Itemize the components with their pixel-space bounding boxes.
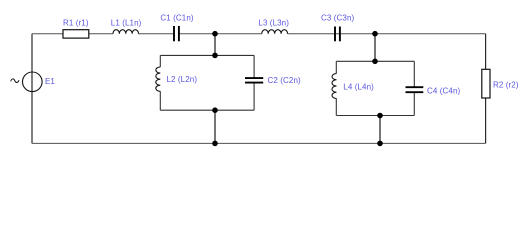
wire: R2 pin 2 down to bottom-right corner <box>485 98 487 143</box>
svg-text:R1 (r1): R1 (r1) <box>63 18 89 27</box>
svg-text:R2 (r2): R2 (r2) <box>493 81 519 90</box>
C1 left plate <box>173 26 175 41</box>
wire: L2C2 tank bottom rail <box>160 109 254 111</box>
wire: C2 branch lower lead <box>253 83 255 110</box>
capacitor C4 <box>406 87 424 92</box>
C3 right plate <box>339 27 341 42</box>
wire: junction drop x=215 L2C2 block bottom to bottom rail <box>214 110 216 143</box>
svg-text:L4 (L4n): L4 (L4n) <box>343 82 374 91</box>
C2 bottom plate <box>245 82 263 84</box>
E1 sine tilde <box>11 79 19 83</box>
wire: L2C2 tank outline <box>160 55 254 110</box>
node: junction dot bottom rail x=215 <box>212 141 218 147</box>
C4 bottom plate <box>406 91 424 93</box>
wire: C4 branch lower lead <box>413 93 415 116</box>
svg-text:C4 (C4n): C4 (C4n) <box>427 87 460 96</box>
svg-text:L3 (L3n): L3 (L3n) <box>258 18 289 27</box>
inductor L4 <box>332 74 337 99</box>
node: junction dot top rail x=215 <box>212 31 218 37</box>
wire: top-left corner to R1 left pin <box>32 33 63 35</box>
C4 top plate <box>406 86 424 88</box>
node: junction dot bottom rail x=380 <box>377 141 383 147</box>
node: junction dot L4C4 top <box>372 59 378 65</box>
C1 right plate <box>178 26 180 41</box>
wire: main bottom rail <box>32 142 486 144</box>
wire: L1 right pin to C1 left plate <box>139 33 175 35</box>
wire: L4C4 tank top rail <box>336 60 414 62</box>
wire: top-right corner down to R2 pin 1 <box>485 34 487 70</box>
inductor L2 <box>156 67 161 91</box>
wire: main top rail segments <box>32 33 486 35</box>
svg-text:L2 (L2n): L2 (L2n) <box>167 75 198 84</box>
C3 left plate <box>334 27 336 42</box>
wire: junction drop x=375 top rail to L4C4 block <box>374 34 376 62</box>
node: junction dot L4C4 bottom <box>377 113 383 119</box>
wire: junction drop x=380 L4C4 block bottom to bottom rail <box>379 116 381 144</box>
wire: L4C4 tank outline <box>336 61 414 115</box>
wire: L2C2 tank top rail <box>160 54 254 56</box>
wire: L2 branch upper lead <box>159 55 161 67</box>
svg-text:C2 (C2n): C2 (C2n) <box>268 76 301 85</box>
C2 top plate <box>245 77 263 79</box>
wire: L3 right pin to C3, node B, to top-right corner <box>288 33 486 35</box>
wire: left vertical from top-left corner down to bottom-left corner <box>31 34 33 144</box>
svg-text:C1 (C1n): C1 (C1n) <box>160 14 193 23</box>
node: junction dot L2C2 bottom <box>212 107 218 113</box>
resistor R2 <box>482 69 490 98</box>
wire: C4 branch upper lead <box>413 61 415 86</box>
wire: L4C4 tank bottom rail <box>336 115 414 117</box>
wire: C1 right plate to node A then L3 left pin <box>179 33 262 35</box>
inductor L1 <box>113 30 139 34</box>
node: junction dot top rail x=375 <box>372 31 378 37</box>
inductor L3 <box>262 30 288 34</box>
svg-text:C3 (C3n): C3 (C3n) <box>321 14 354 23</box>
wire: R1 right pin to L1 left pin <box>89 33 113 35</box>
svg-text:E1: E1 <box>45 77 55 86</box>
capacitor C1 <box>174 26 179 41</box>
wire: L4 branch lower lead <box>335 99 337 116</box>
capacitor C3 <box>335 27 340 42</box>
wire: L4 branch upper lead <box>335 61 337 73</box>
svg-text:L1 (L1n): L1 (L1n) <box>111 18 142 27</box>
node: junction dot L2C2 top <box>212 53 218 59</box>
wire: right vertical through R2 <box>485 34 487 144</box>
wire: L2 branch lower lead <box>159 91 161 110</box>
capacitor C2 <box>245 78 263 83</box>
resistor R1 <box>63 30 89 38</box>
wire: C2 branch upper lead <box>253 55 255 77</box>
wire: junction drop x=215 top rail to L2C2 block <box>214 34 216 56</box>
source E1 <box>23 72 43 92</box>
